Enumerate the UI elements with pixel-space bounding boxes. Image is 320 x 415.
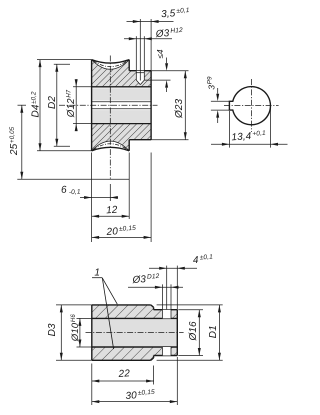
dimension d16 arrow top [198,310,201,318]
dimension 4 line [149,267,197,269]
body bottom extension right [157,359,223,361]
bushing left face [91,305,93,360]
svg-text:1: 1 [94,267,100,278]
hole mouth line [136,72,144,74]
dimension D4 arrow top [39,60,42,68]
dimension D4 line [39,60,41,151]
dimension 3,5 arrow left [133,20,141,23]
cross hole lower (white) [162,347,171,356]
dimension 13,4 arrow left (outside) [222,143,230,146]
dimension D4 arrow bottom [39,143,42,151]
extension line stub right down [176,357,178,405]
extension line circle right down [270,108,272,148]
dimension 4 arrow right (outside) [177,267,185,270]
dimension 25 line [21,105,23,179]
extension line cross hole center up [166,266,168,310]
dimension 12 line [92,215,130,217]
hole right wall [143,71,145,80]
reference line 25 below [17,178,129,180]
groove root silhouette arc top [92,60,130,70]
bushing body top edge [92,304,151,306]
axis tick for 25 dimension [18,104,27,106]
dimension d12 H7 line [75,79,77,131]
pulley lower section area (hatched) [92,124,152,151]
hub top extension line right [151,70,188,72]
dimension 30 arrow left [92,400,100,403]
item 1 leader line a [102,278,117,304]
bushing body bottom edge [92,359,151,361]
dimension 6 arrow right (outside) [110,196,118,199]
dimension 22 arrow left [92,380,100,383]
dimension D1 line [218,305,220,360]
dimension D1 arrow top [218,305,221,313]
dimension 3 P9 arrow top [217,88,219,94]
extension line groove center down [109,184,111,201]
cross hole upper (white) [162,310,171,319]
keyway width extension line bottom [211,109,230,111]
dimension D2 arrow top [55,64,58,72]
dimension d3 arrow right [144,37,152,40]
hub top edge [129,70,151,72]
svg-text:22: 22 [117,368,130,380]
bore surface shading lower [92,110,152,122]
extension line pulley right face up [150,19,152,71]
keyway width extension line top [211,100,230,102]
dimension d3D12 arrow left (outside) [155,286,163,289]
body top extension left [56,304,92,306]
dimension 22 arrow right [146,380,154,383]
bushing bore surface shading [92,319,178,346]
groove outer arc top [92,60,130,64]
dimension d3 D12 line [128,286,183,288]
dimension 22 line [92,380,154,382]
bore bottom extension left [77,346,92,348]
bore top extension left [77,317,92,319]
bushing axis centerline [86,332,184,334]
bore bottom extension line left [73,123,92,125]
extension line pulley left edge down [91,153,93,243]
dimension diameter 23 line [184,71,186,140]
hole drill point right [140,80,144,85]
groove pitch arc bottom (centerline) [93,144,128,150]
stub top extension right [178,309,203,311]
chamfer bottom-right [151,358,154,360]
groove crescent bottom (white) [92,141,130,151]
body-stub step face top [153,307,155,309]
svg-text:Ø23: Ø23 [174,98,185,119]
stub right end face [176,310,178,356]
pulley axis centerline horizontal [59,104,158,106]
svg-text:D2: D2 [47,96,58,109]
dimension d12 arrow top (outside) [75,79,78,87]
extension line hole center [139,19,141,81]
bore surface shading upper [92,88,152,100]
svg-text:≤4: ≤4 [156,49,165,59]
svg-text:D1: D1 [208,325,219,338]
dimension 12 arrow right [122,215,130,218]
flange bottom extension line left [37,150,92,152]
extension line bushing left down [91,364,93,406]
extension line hole right wall [143,36,145,70]
dimension d10 H6 line [79,318,81,347]
dimension 20 arrow right [144,236,152,239]
keyway silhouette line lower [92,108,152,110]
hub bottom extension line right [151,139,188,141]
groove-hub step bottom [128,140,130,151]
svg-text:Ø16: Ø16 [188,321,199,342]
dimension 6 arrow left (outside) [84,196,92,199]
flange top extension line left [37,59,92,61]
extension line stub right face up [176,266,178,310]
groove crescent top (white) [92,60,130,70]
body top extension right [157,304,223,306]
dimension d3 arrow left [129,37,137,40]
dimension 4 arrow left (outside) [159,267,167,270]
extension line cross hole left wall up [161,284,163,309]
depth dimension <=4 upper arrow [166,58,168,64]
bushing bore bottom line [92,346,178,348]
bushing bottom wall (hatched) [92,347,178,360]
extension line body right down [153,366,155,385]
bore bottom line [92,123,152,125]
pulley left edge [91,60,93,151]
dimension diameter 3 H12 line [124,38,172,40]
bore circle with keyway (end view) [229,87,270,125]
dimension D2 arrow bottom [55,139,58,147]
hub bottom edge [129,139,151,141]
dimension 12 arrow left [92,215,100,218]
item 1 leader line b [102,278,113,349]
dimension D1 arrow bottom [218,353,221,361]
dimension 25 arrow top [20,105,23,113]
svg-text:D3: D3 [47,323,58,336]
svg-text:12: 12 [106,205,118,217]
D2 extension line bottom [54,145,70,147]
bushing top wall (hatched) [92,305,178,319]
dimension D2 line [56,64,58,146]
dimension 30 line [92,401,178,403]
dimension 3,5 arrow right [151,20,159,23]
stub top edge [154,309,178,311]
extension line keyway bottom down [228,111,230,148]
end view horizontal centerline [224,105,279,107]
dimension D3 arrow top [60,305,63,313]
dimension 6 line [80,197,118,199]
dimension 3,5 line [127,21,174,23]
dimension d3D12 arrow right (outside) [171,286,179,289]
stub bottom edge [154,355,178,357]
dimension d23 arrow bottom [184,132,187,140]
dimension d12 arrow bottom (outside) [75,124,78,132]
groove root silhouette arc bottom [92,141,130,151]
dimension 20 arrow left [92,236,100,239]
bore top extension line left [73,86,92,88]
chamfer top-right [151,305,154,307]
dimension d16 arrow bottom [198,348,201,356]
dimension d10 arrow top [78,318,81,326]
groove outer arc bottom [92,147,130,151]
extension line groove step down [128,153,130,220]
body-stub step face bottom [153,356,155,358]
dimension 30 arrow right [170,400,178,403]
depth line at 4mm [144,79,170,81]
dimension 25 arrow bottom [20,172,23,180]
dimension 13,4 arrow right (outside) [271,143,279,146]
stub bottom extension right [178,355,203,357]
dimension d16 line [198,310,200,356]
extension line hole left wall [135,36,137,70]
dimension 3 P9 arrow bottom [217,117,219,123]
bushing bore top line [92,317,178,319]
pulley right edge [150,71,152,140]
dimension D3 line [60,305,62,360]
depth dimension <=4 lower arrow [166,88,168,92]
dimension D3 arrow bottom [60,353,63,361]
D2 extension line top [54,63,70,65]
groove centerline vertical [109,56,111,180]
set screw hole in hub (white) [136,71,144,85]
groove-hub step top [128,60,130,71]
end view vertical centerline [250,79,252,132]
extension line pulley right edge down [150,153,152,243]
hole left wall [135,71,137,80]
item 1 underline [92,277,102,279]
hole drill point left [136,80,140,85]
groove pitch arc top (centerline) [93,61,128,67]
dimension 13,4 line [211,143,288,145]
keyway silhouette line upper [92,101,152,103]
pulley upper section area (hatched) [92,60,152,87]
extension line cross hole right wall up [170,284,172,309]
dimension d23 arrow top [184,71,187,79]
body bottom extension left [56,359,92,361]
dimension d10 arrow bottom [78,340,81,348]
bore top line [92,86,152,88]
dimension 20 line [92,236,152,238]
